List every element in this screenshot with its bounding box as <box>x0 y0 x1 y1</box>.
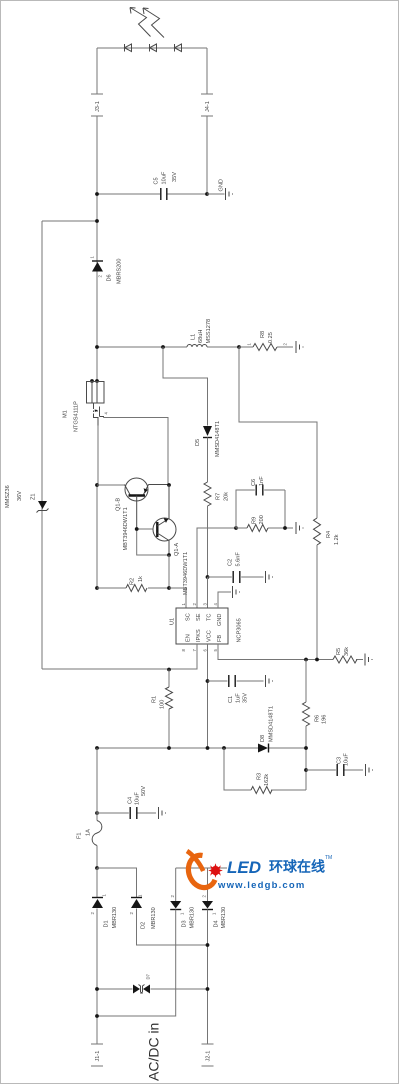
svg-text:4: 4 <box>213 603 218 606</box>
node junction <box>167 746 171 750</box>
svg-text:MBR130: MBR130 <box>151 907 157 929</box>
svg-text:FB: FB <box>217 635 223 642</box>
svg-text:R8: R8 <box>260 331 266 338</box>
svg-text:D5: D5 <box>195 439 201 446</box>
node junction <box>95 483 99 487</box>
node junction <box>167 586 171 590</box>
wire 748 row <box>97 747 306 749</box>
node junction <box>206 679 210 683</box>
svg-text:1: 1 <box>102 894 107 897</box>
svg-text:1: 1 <box>247 343 252 346</box>
wire <box>206 116 208 194</box>
logo LED ledgb <box>187 851 332 891</box>
svg-text:200: 200 <box>259 515 265 524</box>
svg-text:D7: D7 <box>146 973 151 979</box>
svg-text:MBRS200: MBRS200 <box>117 259 123 285</box>
svg-text:1: 1 <box>138 894 143 897</box>
transistor M1 NTGS4111P (P-MOSFET) <box>63 379 109 432</box>
svg-text:J1-1: J1-1 <box>95 1051 101 1062</box>
svg-text:MMSD4148T1: MMSD4148T1 <box>269 706 275 742</box>
svg-text:50V: 50V <box>141 786 147 796</box>
node junction <box>167 553 171 557</box>
node junction <box>304 658 308 662</box>
resistor R1 100 <box>152 670 173 749</box>
node V+ out junction <box>95 192 99 196</box>
fuse F1 1A <box>77 748 102 868</box>
node junction <box>95 219 99 223</box>
svg-text:10uF: 10uF <box>162 171 168 184</box>
node junction <box>95 345 99 349</box>
svg-text:2: 2 <box>192 603 197 606</box>
resistor R9 200 <box>236 515 293 531</box>
svg-text:F1: F1 <box>77 832 83 839</box>
diode D2 MBR130 <box>129 894 208 945</box>
node TC junction <box>206 575 210 579</box>
capacitor C2 5.6nF <box>208 552 273 583</box>
svg-text:10uF: 10uF <box>344 753 350 766</box>
svg-text:D3: D3 <box>182 920 188 927</box>
wire left rail <box>41 221 43 669</box>
svg-text:7: 7 <box>192 649 197 652</box>
node junction <box>206 746 210 750</box>
wire SE pin2 riser and FB row <box>197 528 236 608</box>
svg-text:162k: 162k <box>264 774 270 786</box>
capacitor C4 10uF 50V <box>97 786 166 819</box>
svg-text:R4: R4 <box>326 531 332 538</box>
svg-text:C5: C5 <box>154 177 160 184</box>
LED string wire <box>97 47 207 49</box>
ground GND output <box>219 179 233 200</box>
svg-text:GND: GND <box>217 614 223 626</box>
svg-text:1: 1 <box>181 603 186 606</box>
TVS D7 <box>133 973 151 993</box>
svg-text:R6: R6 <box>315 715 321 722</box>
svg-text:NTGS4111P: NTGS4111P <box>74 401 80 432</box>
svg-text:1uF: 1uF <box>236 693 242 703</box>
node junction <box>206 987 210 991</box>
svg-text:36V: 36V <box>17 491 23 501</box>
svg-text:20k: 20k <box>224 492 230 501</box>
wire pin1 link <box>169 588 186 608</box>
ground after R5 <box>365 654 372 666</box>
node junction <box>135 527 139 531</box>
wire <box>207 193 225 195</box>
svg-text:2: 2 <box>283 343 288 346</box>
svg-text:R5: R5 <box>336 648 342 655</box>
node junction <box>206 943 210 947</box>
svg-text:MBR130: MBR130 <box>190 907 196 929</box>
terminal J2-1 <box>202 1044 214 1066</box>
svg-text:www.ledgb.com: www.ledgb.com <box>217 880 306 891</box>
svg-text:35V: 35V <box>172 172 178 182</box>
svg-text:8: 8 <box>181 649 186 652</box>
svg-text:Q1-A: Q1-A <box>174 543 180 556</box>
svg-text:196: 196 <box>322 715 328 724</box>
wire <box>42 220 97 222</box>
resistor R8 0.25 <box>239 331 293 351</box>
capacitor C5 <box>154 171 179 200</box>
svg-text:D6: D6 <box>107 274 113 281</box>
svg-text:R1: R1 <box>152 696 158 703</box>
svg-text:MMSD4148T1: MMSD4148T1 <box>215 421 221 457</box>
LED LED2 <box>150 44 157 52</box>
wire sense line to R4 <box>239 347 317 518</box>
svg-text:1: 1 <box>212 912 217 915</box>
IC U1 NCP3065 <box>170 603 243 652</box>
wire <box>316 545 318 660</box>
wire rail below M1 <box>97 426 98 589</box>
inductor L1 68uH MSS1278 <box>187 319 212 347</box>
svg-text:D4: D4 <box>214 920 220 927</box>
node junction <box>161 345 165 349</box>
node junction <box>167 483 171 487</box>
node junction <box>95 586 99 590</box>
svg-text:6: 6 <box>203 649 208 652</box>
svg-text:M1: M1 <box>63 410 69 418</box>
svg-text:MBT3946DW1T1: MBT3946DW1T1 <box>123 507 129 550</box>
svg-text:C4: C4 <box>128 797 134 804</box>
diode D6 MBRS200 <box>90 256 123 285</box>
svg-text:IPKS: IPKS <box>196 629 202 642</box>
svg-text:0.25: 0.25 <box>268 332 274 343</box>
svg-text:4: 4 <box>104 412 109 415</box>
svg-text:2: 2 <box>98 275 103 278</box>
svg-text:1.2k: 1.2k <box>334 534 340 545</box>
LED LED3 <box>175 44 182 52</box>
wire <box>206 48 208 94</box>
svg-text:D1: D1 <box>104 920 110 927</box>
light emission arrows <box>130 8 164 38</box>
LED LED1 <box>125 44 132 52</box>
wire <box>97 193 207 195</box>
wire EN row <box>42 644 197 669</box>
svg-text:Q1-B: Q1-B <box>116 498 122 511</box>
wire base link <box>137 529 169 555</box>
node junction <box>315 658 319 662</box>
node junction <box>95 987 99 991</box>
svg-text:1A: 1A <box>86 829 92 836</box>
svg-text:1nF: 1nF <box>259 476 265 486</box>
diode D1 MBR130 <box>90 868 118 1044</box>
node junction <box>234 526 238 530</box>
wire <box>96 48 98 94</box>
svg-text:Z1: Z1 <box>31 493 37 500</box>
svg-text:环球在线: 环球在线 <box>269 859 325 875</box>
diode D3 MBR130 <box>97 895 196 1017</box>
svg-text:TC: TC <box>207 614 213 621</box>
svg-text:L1: L1 <box>191 334 197 340</box>
wire VCC pin6 <box>207 644 209 748</box>
svg-text:68uH: 68uH <box>198 330 204 343</box>
diode D8 MMSD4148T1 <box>258 706 275 753</box>
wire <box>207 506 209 577</box>
svg-text:J3-1: J3-1 <box>95 101 101 112</box>
svg-text:36k: 36k <box>344 647 350 656</box>
diode D5 MMSD4148T1 <box>195 421 221 457</box>
svg-text:C3: C3 <box>337 757 343 764</box>
terminal J3-1 <box>91 94 103 116</box>
svg-text:35V: 35V <box>243 693 249 703</box>
resistor R7 20k <box>204 482 230 506</box>
svg-text:2: 2 <box>129 912 134 915</box>
resistor R3 162k loop <box>224 748 306 794</box>
node junction <box>304 746 308 750</box>
svg-text:5: 5 <box>213 649 218 652</box>
node junction <box>95 866 99 870</box>
svg-text:GND: GND <box>219 179 225 191</box>
svg-text:AC/DC in: AC/DC in <box>146 1023 162 1081</box>
svg-text:C6: C6 <box>251 479 257 486</box>
svg-text:NCP3065: NCP3065 <box>237 618 243 642</box>
svg-text:1k: 1k <box>138 576 144 582</box>
svg-text:MSS1278: MSS1278 <box>206 319 212 344</box>
svg-text:2: 2 <box>170 895 175 898</box>
ground after R9 <box>296 522 303 534</box>
node junction <box>283 526 287 530</box>
wire D7 row <box>97 988 208 990</box>
capacitor C1 1uF 35V <box>208 675 273 703</box>
resistor R5 36k <box>333 647 357 663</box>
transistor Q1-B MBT3946DW1T1 (PNP) <box>97 478 169 551</box>
svg-text:MBR130: MBR130 <box>112 907 118 929</box>
ground after R8 <box>296 341 303 353</box>
svg-text:VCC: VCC <box>207 630 213 642</box>
wire main rail top <box>96 116 98 381</box>
capacitor C6 1nF <box>236 476 285 528</box>
svg-text:TM: TM <box>325 855 332 861</box>
svg-text:J4-1: J4-1 <box>205 101 211 112</box>
svg-text:R3: R3 <box>257 773 263 780</box>
node junction <box>205 192 209 196</box>
wire D3/D4 anode row <box>176 868 227 901</box>
transistor Q1-A MBT3946DW1T1 (NPN) <box>153 485 189 595</box>
wire L1 row <box>97 346 239 348</box>
ground pin4 <box>233 586 240 598</box>
wire pin4 to ground <box>218 592 231 608</box>
svg-text:D2: D2 <box>141 922 147 929</box>
node junction <box>95 1014 99 1018</box>
svg-text:D8: D8 <box>260 735 266 742</box>
svg-text:EN: EN <box>186 634 192 642</box>
svg-text:3: 3 <box>203 603 208 606</box>
svg-text:100: 100 <box>160 700 166 709</box>
terminal J4-1 <box>201 94 213 116</box>
svg-text:R9: R9 <box>252 517 258 524</box>
svg-text:R2: R2 <box>130 578 136 585</box>
svg-text:SC: SC <box>186 613 192 621</box>
resistor R6 196 <box>303 660 328 791</box>
wire <box>207 438 209 483</box>
svg-text:LED: LED <box>227 858 261 877</box>
svg-text:1: 1 <box>90 256 95 259</box>
svg-text:SE: SE <box>196 613 202 621</box>
node junction <box>304 768 308 772</box>
wire FB pin5 row <box>218 644 363 660</box>
diode D4 MBR130 <box>202 895 228 1045</box>
svg-text:MMSZ36: MMSZ36 <box>5 485 11 508</box>
svg-text:U1: U1 <box>170 618 176 625</box>
svg-text:C1: C1 <box>228 696 234 703</box>
node junction <box>222 746 226 750</box>
svg-text:2: 2 <box>90 912 95 915</box>
svg-text:10uF: 10uF <box>135 792 141 805</box>
svg-text:R7: R7 <box>216 493 222 500</box>
svg-text:5.6nF: 5.6nF <box>236 552 242 567</box>
wire jog to D5 <box>163 347 208 426</box>
zener Z1 MMSZ36 36V <box>5 485 49 512</box>
resistor R2 1k <box>97 576 169 592</box>
svg-text:1: 1 <box>180 912 185 915</box>
node junction <box>95 746 99 750</box>
svg-text:MBR130: MBR130 <box>221 907 227 929</box>
terminal J1-1 <box>91 1044 103 1066</box>
wire pin3 <box>207 577 209 608</box>
node junction <box>237 345 241 349</box>
capacitor C3 10uF <box>306 753 373 776</box>
wire bridge top <box>97 868 137 897</box>
node junction <box>95 811 99 815</box>
svg-text:C2: C2 <box>228 559 234 566</box>
node junction <box>167 668 171 672</box>
wire gate <box>104 418 169 486</box>
wire <box>168 555 170 588</box>
resistor R4 1.2k <box>314 518 341 545</box>
svg-text:J2-1: J2-1 <box>206 1051 212 1062</box>
svg-text:2: 2 <box>202 895 207 898</box>
